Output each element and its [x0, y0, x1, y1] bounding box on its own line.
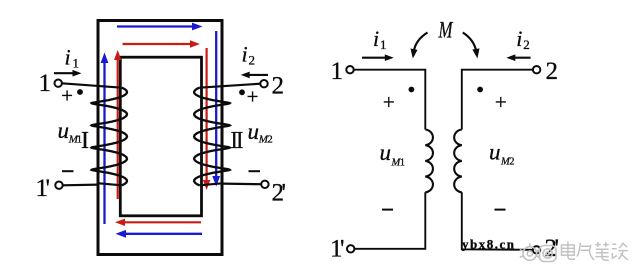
polarity dot (winding II) — [239, 89, 245, 95]
transformer core outer boundary — [98, 21, 222, 255]
svg-text:2: 2 — [523, 37, 530, 52]
svg-text:2: 2 — [249, 53, 256, 68]
polarity minus L2 — [495, 209, 506, 211]
svg-text:u: u — [489, 140, 501, 165]
flux line blue right leg arrow (down) — [212, 31, 220, 187]
svg-text:u: u — [248, 119, 260, 144]
current i2 arrow — [241, 72, 268, 79]
wire terminal 2 to winding II — [199, 84, 260, 88]
flux line red left leg arrow (up) — [114, 50, 121, 199]
svg-text:II: II — [231, 128, 244, 154]
watermark character bi — [595, 242, 609, 260]
wire L1 bottom to terminal 1' — [354, 192, 425, 249]
transformer core window (inner boundary) — [120, 57, 201, 216]
M curved arrow left — [411, 33, 428, 59]
watermark logo flower icon — [520, 243, 540, 260]
polarity dot (winding I) — [77, 89, 83, 95]
winding II exit wire to 2' — [199, 183, 223, 185]
terminal 2' (circuit) — [533, 246, 540, 253]
winding I exit wire to 1' — [98, 183, 122, 185]
svg-text:M: M — [438, 17, 454, 42]
svg-text:ybx8.cn: ybx8.cn — [462, 237, 515, 252]
svg-text:1: 1 — [331, 58, 344, 85]
svg-text:1: 1 — [400, 157, 405, 168]
wire terminal 1 to L1 top — [354, 70, 426, 130]
polarity dot L1 — [409, 87, 415, 93]
svg-text:1: 1 — [39, 70, 52, 97]
M curved arrow right — [463, 33, 480, 59]
wire terminal 2 to L2 top — [462, 70, 533, 130]
winding I coil (left leg) — [92, 88, 128, 186]
svg-text:+: + — [383, 90, 395, 114]
polarity minus (winding II) — [249, 170, 261, 172]
svg-text:i: i — [65, 45, 71, 70]
svg-text:+: + — [247, 85, 259, 109]
polarity minus L1 — [382, 209, 393, 211]
watermark logo @ icon — [540, 246, 557, 262]
svg-text:2: 2 — [509, 157, 514, 168]
wire terminal 1' to winding I — [63, 184, 99, 187]
polarity minus (winding I) — [62, 170, 74, 172]
svg-text:2: 2 — [272, 73, 285, 100]
watermark character tan — [612, 243, 628, 260]
terminal 2' — [261, 181, 268, 188]
svg-text:2': 2' — [272, 180, 286, 207]
flux line red top arrow — [123, 40, 201, 47]
terminal 1' — [55, 182, 62, 189]
flux line red right leg arrow (down) — [203, 48, 210, 190]
watermark character dian — [562, 242, 576, 260]
winding II coil (right leg) — [194, 88, 230, 186]
svg-text:1: 1 — [380, 37, 387, 52]
svg-text:2: 2 — [546, 58, 559, 85]
current i1 arrow (circuit) — [362, 54, 394, 61]
svg-text:1': 1' — [330, 236, 344, 263]
terminal 1 — [55, 80, 62, 87]
svg-text:i: i — [373, 26, 379, 51]
svg-text:1': 1' — [36, 175, 50, 202]
terminal 2 — [260, 80, 267, 87]
terminal 1 (circuit) — [346, 66, 353, 73]
current i1 arrow — [54, 70, 82, 77]
polarity dot L2 — [477, 87, 483, 93]
flux line blue top arrow — [117, 23, 203, 31]
terminal 1' (circuit) — [347, 245, 354, 252]
current i2 arrow (circuit) — [506, 54, 530, 61]
flux line blue bottom arrow (left) — [116, 230, 203, 238]
svg-text:u: u — [380, 140, 392, 165]
svg-text:+: + — [495, 90, 507, 114]
wire terminal 2' to winding II — [222, 183, 261, 186]
inductor L1 — [425, 130, 433, 193]
wire terminal 1 to winding I — [62, 83, 122, 87]
svg-text:i: i — [516, 26, 522, 51]
flux line red bottom arrow (left) — [115, 219, 201, 226]
svg-text:+: + — [61, 84, 73, 108]
svg-text:2: 2 — [267, 133, 273, 145]
terminal 2 (circuit) — [533, 66, 540, 73]
svg-text:1: 1 — [73, 56, 80, 71]
svg-text:I: I — [81, 128, 89, 154]
watermark character qi — [577, 243, 594, 260]
svg-text:u: u — [58, 118, 70, 143]
inductor L2 — [454, 130, 462, 193]
flux line blue left leg arrow (up) — [101, 53, 109, 225]
svg-text:i: i — [242, 42, 248, 67]
wire L2 bottom to terminal 2' — [462, 192, 533, 250]
